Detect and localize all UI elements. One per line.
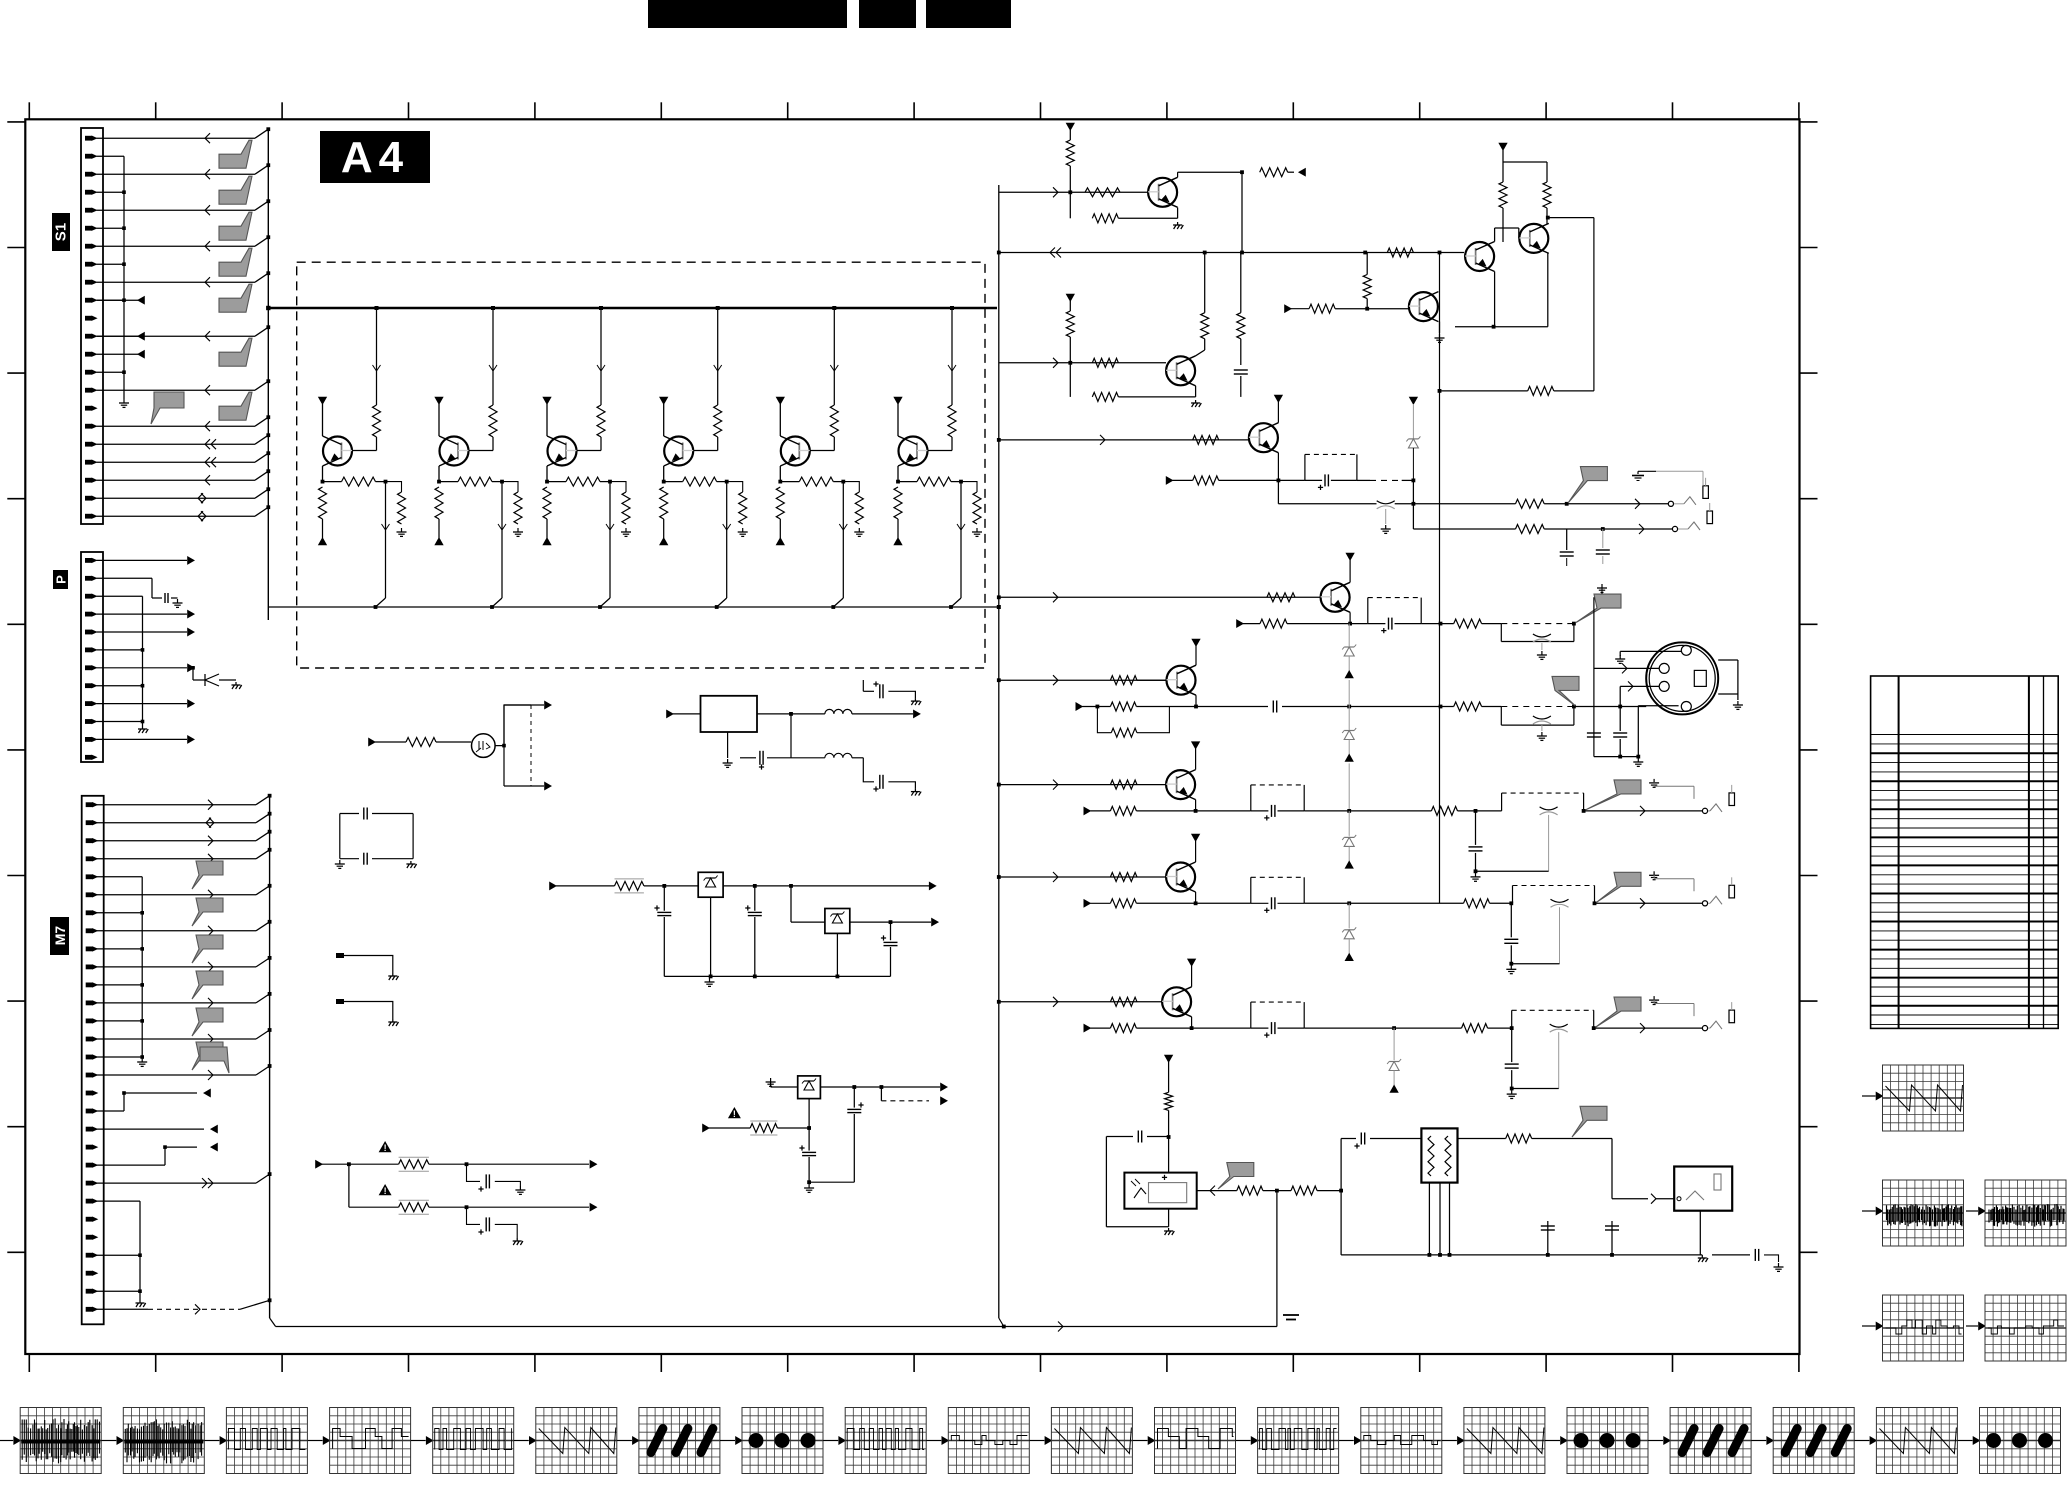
svg-text:!: ! [733, 1109, 736, 1119]
svg-text:!: ! [384, 1143, 387, 1153]
svg-text:P: P [54, 575, 69, 584]
svg-text:A4: A4 [341, 133, 409, 182]
svg-text:S1: S1 [53, 223, 70, 241]
svg-text:M7: M7 [52, 926, 68, 946]
svg-text:!: ! [384, 1186, 387, 1196]
